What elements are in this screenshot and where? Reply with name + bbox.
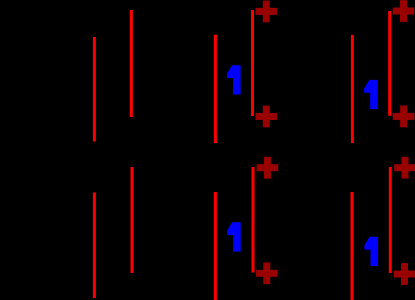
dipole line P5 upper segment <box>351 35 354 143</box>
label 1 (group 3 bottom) <box>364 237 378 266</box>
dipole line P6 lower segment <box>389 167 392 273</box>
plus charge Q6 (bottom of P6 upper) <box>393 106 415 128</box>
plus charge Q3 (top of P4 lower) <box>257 157 279 179</box>
dipole line P4 lower segment <box>252 167 255 273</box>
label 1 (group 2 top) <box>227 65 241 94</box>
plus charge Q5 (top of P6 upper) <box>393 0 415 22</box>
plus charge Q7 (top of P6 lower) <box>394 157 415 179</box>
label 1 (group 2 bottom) <box>227 222 241 251</box>
dipole line P4 upper segment <box>251 10 254 116</box>
dipole line P3 upper segment <box>214 35 217 143</box>
plus charge Q4 (bottom of P4 lower) <box>256 262 278 284</box>
dipole line P6 upper segment <box>388 11 391 116</box>
plus charge Q2 (bottom of P4 upper) <box>256 106 278 128</box>
dipole line P5 lower segment <box>351 192 354 300</box>
dipole line P1 upper segment <box>93 37 96 142</box>
plus charge Q1 (top of P4 upper) <box>256 1 278 23</box>
plus charge Q8 (bottom of P6 lower) <box>394 263 415 285</box>
dipole line P1 lower segment <box>93 193 96 299</box>
dipole line P3 lower segment <box>214 192 217 300</box>
dipole line P2 upper segment <box>130 10 133 117</box>
dipole line P2 lower segment <box>131 167 134 273</box>
label 1 (group 3 top) <box>364 80 378 109</box>
